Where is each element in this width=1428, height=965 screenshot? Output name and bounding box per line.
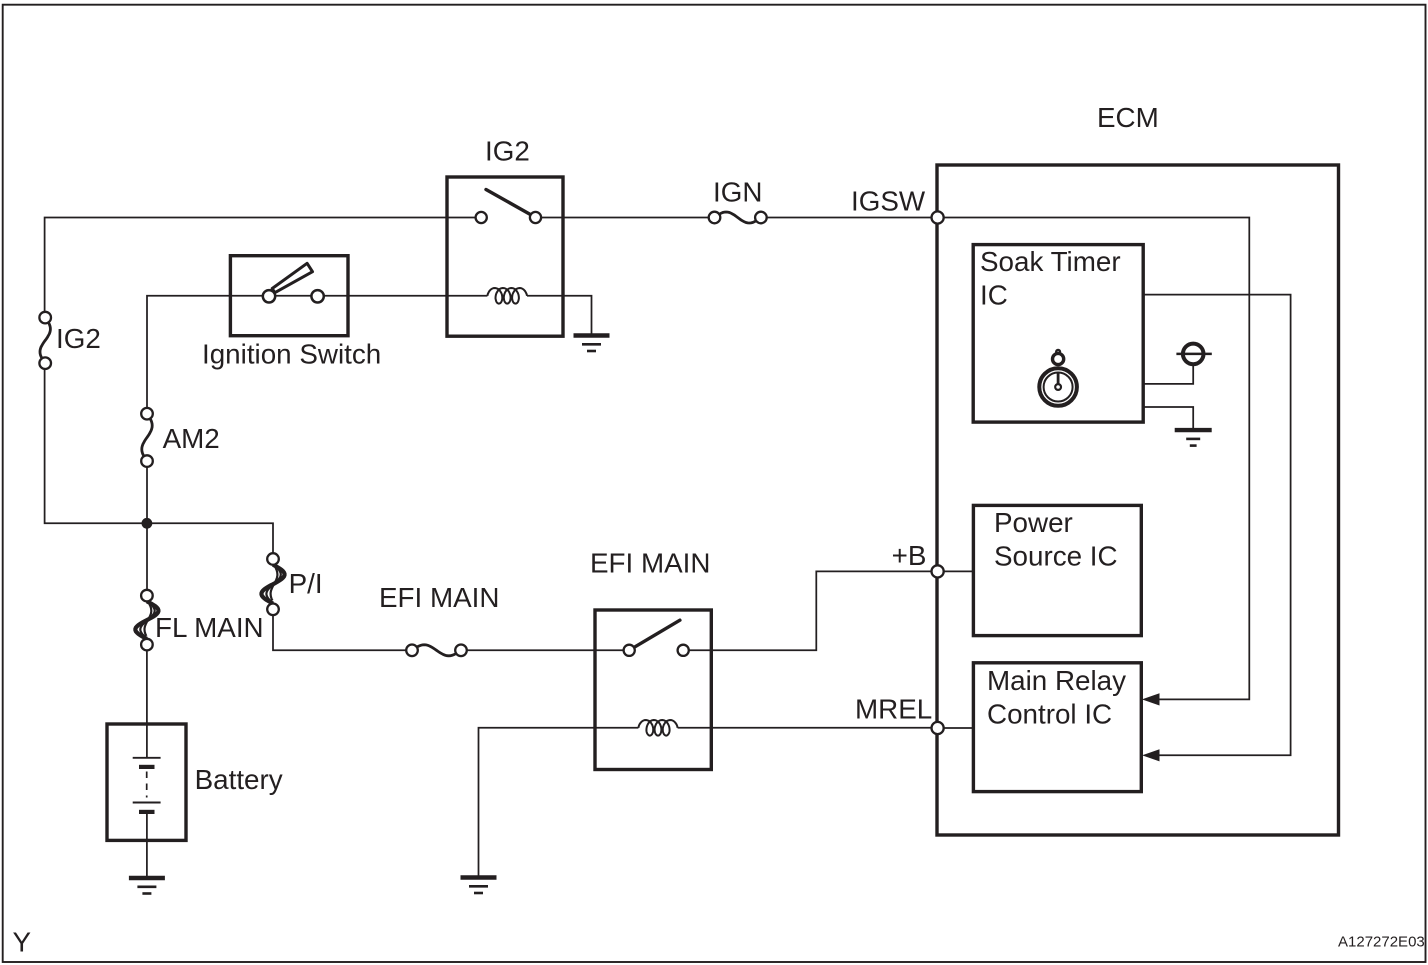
svg-text:AM2: AM2 [163,423,220,454]
relay IG2 contact circles [476,212,487,223]
svg-text:IGSW: IGSW [851,186,926,217]
svg-text:Main Relay: Main Relay [987,665,1126,696]
svg-text:Ignition Switch: Ignition Switch [202,339,381,370]
wire IG2 coil to ground lead [527,296,592,336]
wire EFI MAIN relay contact to +B node [683,571,937,650]
stopwatch icon crown [1053,353,1064,364]
ignition switch contact circles [263,290,275,302]
svg-text:Y: Y [13,926,32,957]
junction dot battery rail [142,518,153,529]
wire IGN fuse to IGSW node [761,217,938,219]
wire P/I fuse down and right to EFI MAIN fuse [273,609,412,650]
relay EFI MAIN box [595,610,711,770]
wire Soak Timer IC output to Main Relay Control IC arrow [1143,295,1290,756]
Soak Timer IC box [973,245,1143,423]
fusible link FL MAIN [135,601,158,639]
wire IG2 relay to IGN fuse [536,217,715,219]
svg-text:FL MAIN: FL MAIN [155,612,264,643]
svg-text:Battery: Battery [195,764,283,795]
relay IG2 coil [487,288,527,304]
stopwatch icon hub [1055,384,1061,390]
svg-text:A127272E03: A127272E03 [1338,934,1425,951]
ignition switch box [230,256,348,336]
power terminal symbol circle [1183,344,1204,365]
battery cell plate long top [133,757,161,759]
wire +B node to Power Source IC [938,570,974,572]
wire EFI MAIN coil to MREL node [678,727,938,729]
ground under relay IG2 [574,333,610,337]
fuse EFI MAIN [412,645,461,656]
svg-text:IG2: IG2 [56,323,101,354]
svg-text:IC: IC [980,280,1008,311]
ground for EFI MAIN coil branch [461,875,497,879]
svg-text:IGN: IGN [713,177,762,208]
power terminal symbol bar [1176,353,1211,356]
relay IG2 box [447,177,563,336]
wire AM2 fuse to FL MAIN fuse through junction [146,461,148,595]
svg-text:+B: +B [892,540,927,571]
wire Soak Timer IC pin to power terminal [1143,364,1193,384]
battery dashed center link [146,772,148,798]
svg-text:ECM: ECM [1097,102,1159,133]
svg-text:Power: Power [994,507,1073,538]
svg-text:MREL: MREL [855,693,932,724]
svg-text:EFI MAIN: EFI MAIN [590,548,710,579]
wire EFI MAIN coil left lead to ground [479,728,639,878]
stopwatch icon inner ring [1044,373,1073,402]
fuse AM2 [142,414,152,461]
ECM box [937,165,1339,835]
fuse IG2 (left rail) [40,318,50,364]
Main Relay Control IC box [973,663,1141,792]
relay IG2 switch blade [486,190,531,215]
relay EFI MAIN switch blade [634,620,680,647]
wire left rail: IG2 fuse down to junction rail and P/I branch [45,363,273,559]
ground near Soak Timer IC [1175,428,1212,432]
svg-text:P/I: P/I [289,568,323,599]
svg-text:Soak Timer: Soak Timer [980,246,1121,277]
wire battery to ground [146,812,148,878]
wire IGSW node to Main Relay Control IC arrow [938,218,1250,700]
battery cell plate short top [139,765,155,769]
svg-text:Source IC: Source IC [994,541,1118,572]
wire FL MAIN fuse to battery [146,645,148,758]
wire Soak Timer IC pin to ground [1143,407,1193,430]
node MREL terminal [932,722,944,734]
wire EFI MAIN fuse to EFI MAIN relay contact [461,649,629,651]
stopwatch icon outer ring [1039,368,1077,406]
wire ignition switch row: AM2 fuse up and right to IG2 relay coil [147,296,487,414]
battery cell plate short bottom [139,810,155,814]
relay EFI MAIN contact circles [624,645,635,656]
battery cell plate long bottom [133,802,161,804]
wire top rail left: battery rail corner to IG2 relay contact [45,218,482,318]
node +B terminal [932,565,944,577]
svg-text:Control IC: Control IC [987,698,1112,729]
ignition switch key lever [272,263,312,292]
stopwatch icon crown nub [1056,350,1060,354]
battery box [107,724,186,840]
arrow into Main Relay Control IC from Soak Timer line [1142,749,1160,761]
ground under battery [129,876,165,880]
wire MREL node to Main Relay Control IC [938,727,974,729]
arrow into Main Relay Control IC from IGSW line [1142,693,1160,705]
stopwatch icon needle [1057,372,1060,384]
svg-text:IG2: IG2 [485,136,530,167]
svg-text:EFI MAIN: EFI MAIN [379,582,499,613]
relay EFI MAIN coil [638,720,677,736]
fusible link P/I [262,565,285,604]
fuse IGN [715,212,761,223]
Power Source IC box [973,505,1141,635]
node IGSW terminal [932,211,944,223]
